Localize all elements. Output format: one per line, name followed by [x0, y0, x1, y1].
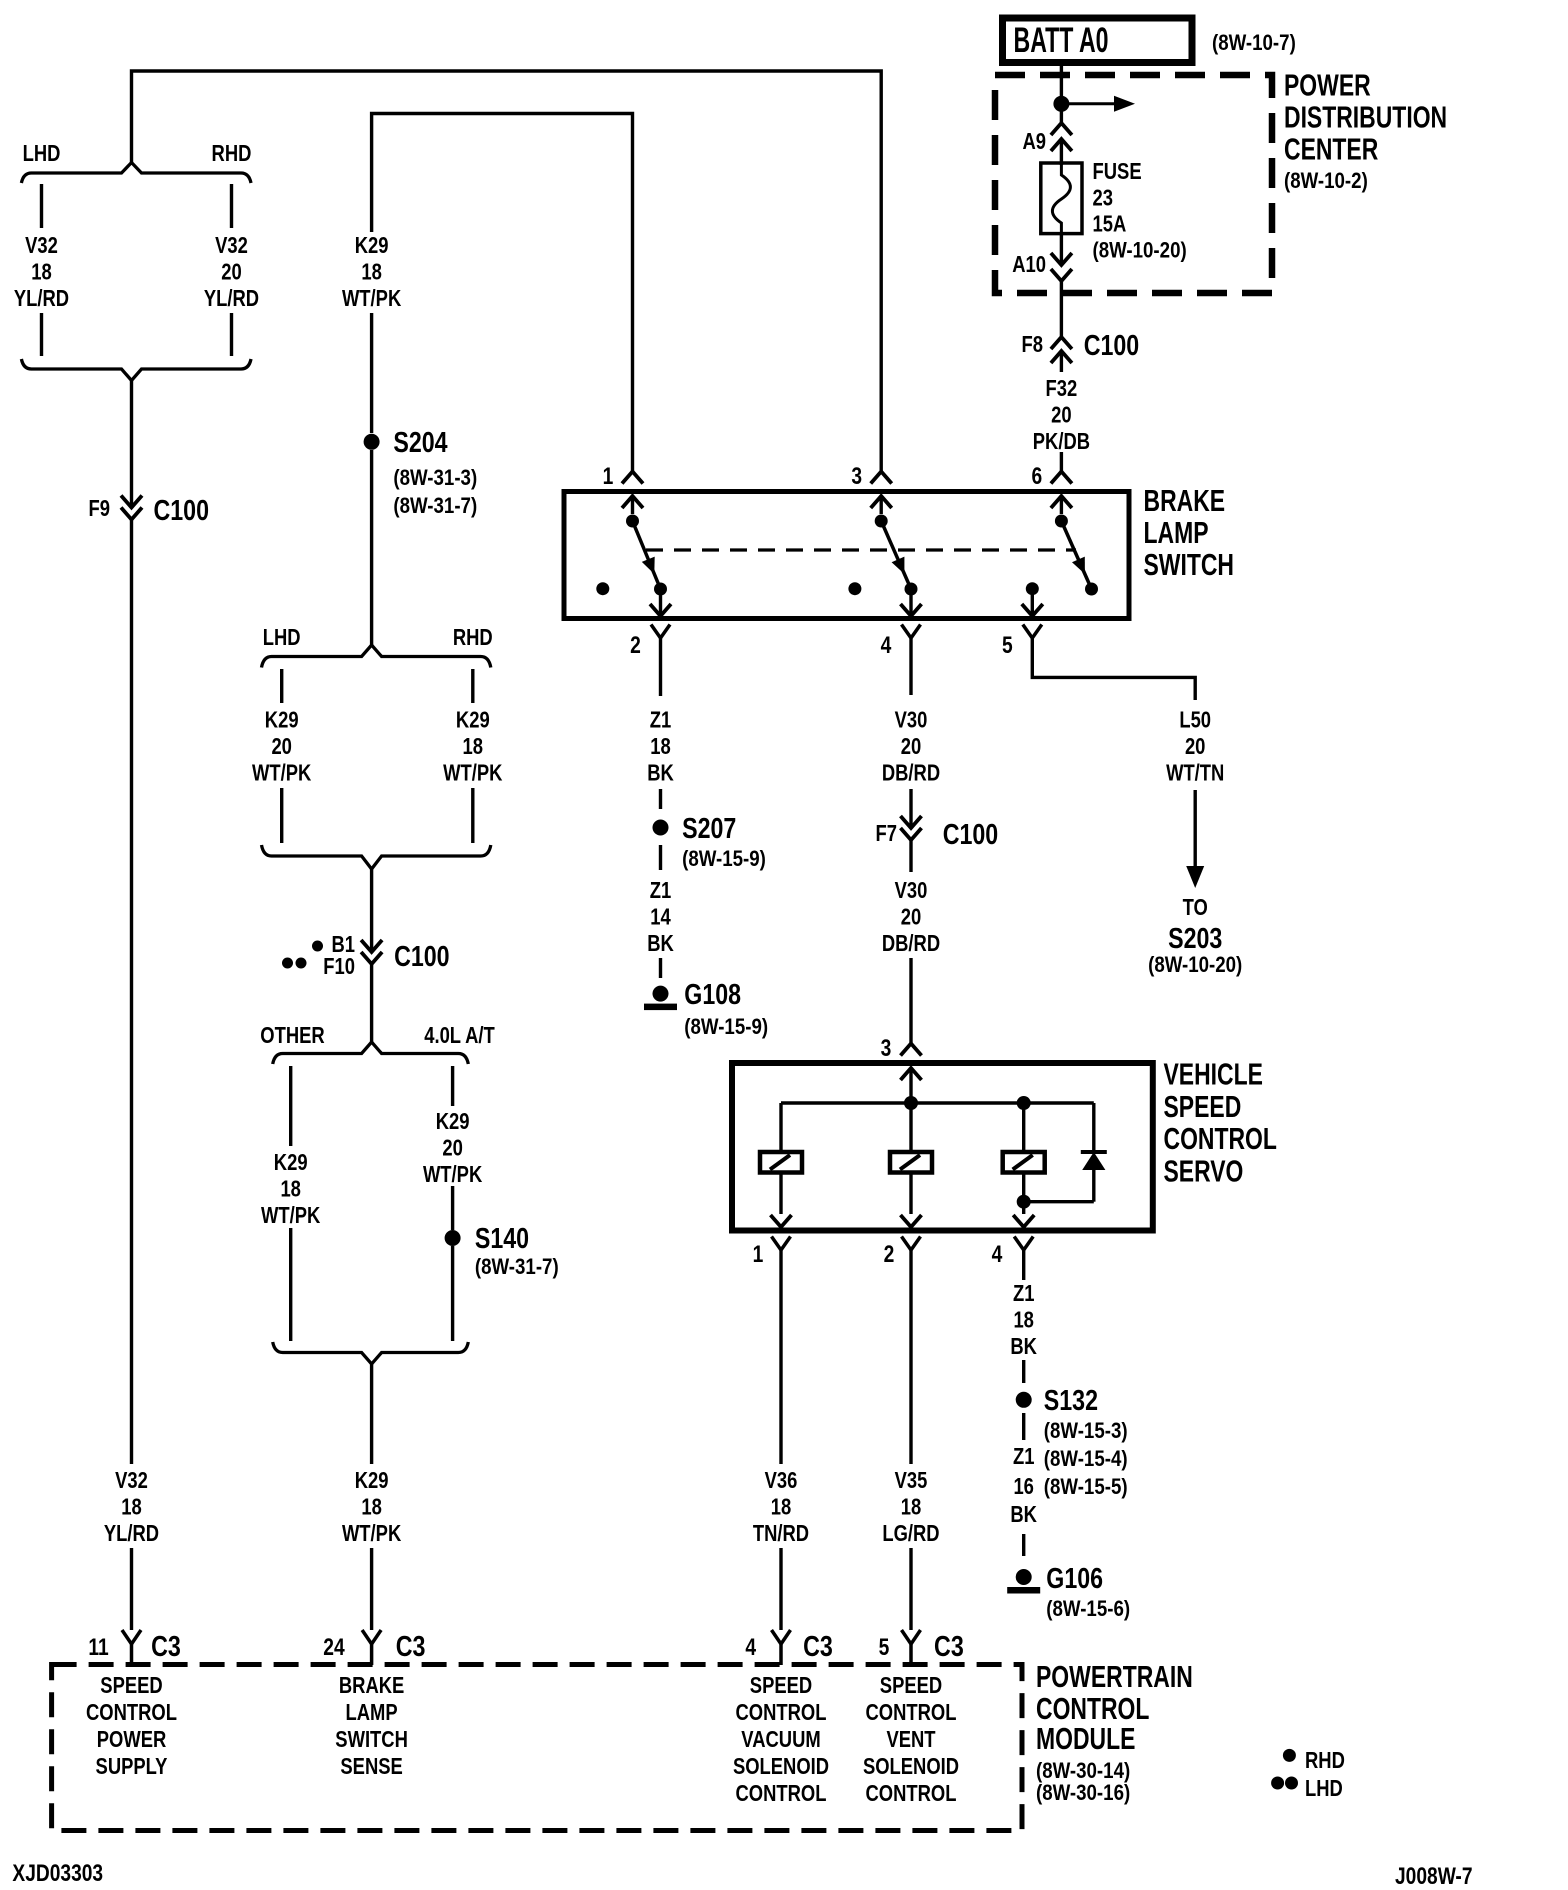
svg-text:V32: V32: [215, 232, 248, 258]
svg-text:SUPPLY: SUPPLY: [96, 1753, 168, 1779]
wire pin 5 jog to L50 column: [1032, 638, 1195, 700]
svg-text:BATT A0: BATT A0: [1014, 21, 1109, 60]
wire K29 RHD branch lower: [471, 788, 474, 843]
dashed mechanical linkage line: [646, 548, 1076, 551]
svg-text:DISTRIBUTION: DISTRIBUTION: [1284, 99, 1447, 134]
wire RHD branch upper segment: [230, 184, 233, 228]
wire A9 to fuse: [1060, 139, 1063, 165]
svg-text:F9: F9: [89, 495, 111, 521]
wire segment: [659, 789, 662, 809]
pin 5 exit connector (bottom of brake lamp switch): [1031, 589, 1034, 614]
svg-text:4: 4: [745, 1634, 756, 1661]
svg-text:SPEED: SPEED: [100, 1672, 162, 1698]
wire BATT A0 into PDC: [1060, 66, 1063, 122]
svg-text:YL/RD: YL/RD: [14, 285, 69, 311]
pin 3 entry connector (top of brake lamp switch): [871, 472, 892, 484]
svg-text:LAMP: LAMP: [1144, 515, 1209, 550]
svg-text:1: 1: [603, 463, 614, 490]
svg-text:6: 6: [1032, 463, 1043, 490]
svg-text:LHD: LHD: [23, 140, 61, 166]
wire segment: [1022, 1413, 1025, 1440]
svg-text:18: 18: [463, 733, 484, 759]
svg-text:1: 1: [753, 1241, 764, 1268]
svg-text:20: 20: [1185, 733, 1206, 759]
wire K29 down to PCM pin 24: [370, 1364, 373, 1464]
svg-text:C100: C100: [1084, 330, 1140, 362]
svg-text:20: 20: [901, 733, 922, 759]
svg-text:C3: C3: [396, 1631, 426, 1663]
splice S132: [1016, 1392, 1032, 1408]
svg-text:16: 16: [1013, 1473, 1034, 1499]
svg-text:VENT: VENT: [886, 1726, 935, 1752]
svg-text:CONTROL: CONTROL: [866, 1780, 957, 1806]
power distribution center dashed box: [995, 75, 1272, 293]
svg-text:K29: K29: [274, 1149, 308, 1175]
wire servo pin 2 down: [909, 1250, 912, 1464]
pin 11 connector fork at PCM: [122, 1630, 132, 1644]
svg-text:LHD: LHD: [1305, 1775, 1343, 1801]
wire K29 LHD branch lower: [280, 788, 283, 843]
wire arrow to S203: [1193, 790, 1196, 868]
svg-text:(8W-10-2): (8W-10-2): [1284, 168, 1368, 193]
svg-text:2: 2: [630, 632, 641, 659]
svg-text:18: 18: [1013, 1307, 1034, 1333]
ground G108: [653, 986, 669, 1002]
svg-text:J008W-7: J008W-7: [1395, 1863, 1473, 1890]
svg-text:C100: C100: [943, 819, 999, 851]
wire pin 2 stem: [659, 638, 662, 696]
svg-text:LG/RD: LG/RD: [882, 1520, 939, 1546]
svg-text:18: 18: [121, 1494, 142, 1520]
svg-text:G108: G108: [684, 979, 741, 1011]
solenoid coil (vent): [1022, 1103, 1025, 1152]
svg-text:LHD: LHD: [263, 624, 301, 650]
wire segment: [909, 840, 912, 872]
switch contact and blade (pin 6): [1055, 515, 1068, 528]
wire coil outputs to servo pins: [779, 1173, 782, 1215]
svg-text:4.0L A/T: 4.0L A/T: [424, 1022, 495, 1048]
svg-text:MODULE: MODULE: [1036, 1721, 1135, 1756]
svg-text:RHD: RHD: [212, 140, 252, 166]
wire S204 down to LHD/RHD split: [370, 450, 373, 645]
svg-text:18: 18: [771, 1494, 792, 1520]
svg-text:F10: F10: [323, 953, 355, 979]
svg-text:SWITCH: SWITCH: [335, 1726, 408, 1752]
svg-text:F32: F32: [1046, 375, 1078, 401]
svg-text:V35: V35: [895, 1467, 928, 1493]
wire fuse to A10: [1060, 234, 1063, 264]
svg-text:C3: C3: [803, 1631, 833, 1663]
wire K29 from C100 down to OTHER/4.0L split: [370, 964, 373, 1043]
svg-text:4: 4: [992, 1241, 1003, 1268]
svg-text:S204: S204: [393, 427, 447, 459]
connector C100 F9 (in-line): [121, 496, 142, 508]
wire internal bus of servo: [909, 1097, 912, 1103]
splice S140: [445, 1230, 461, 1246]
pin 5 connector fork at PCM: [902, 1630, 912, 1644]
pin 4 connector fork at PCM: [772, 1630, 782, 1644]
svg-text:23: 23: [1093, 185, 1114, 211]
svg-text:BK: BK: [1010, 1501, 1037, 1527]
splice S207: [653, 820, 669, 836]
legend LHD marker: [1271, 1777, 1284, 1790]
svg-text:BRAKE: BRAKE: [1144, 483, 1226, 518]
svg-text:VACUUM: VACUUM: [741, 1726, 820, 1752]
svg-text:XJD03303: XJD03303: [12, 1860, 103, 1887]
svg-text:C3: C3: [934, 1631, 964, 1663]
svg-text:K29: K29: [456, 707, 490, 733]
svg-text:20: 20: [442, 1135, 463, 1161]
svg-text:(8W-15-9): (8W-15-9): [684, 1014, 768, 1039]
svg-text:F7: F7: [876, 820, 898, 846]
svg-text:G106: G106: [1046, 1563, 1103, 1595]
brace split OTHER/4.0L A/T: [273, 1042, 469, 1064]
svg-text:4: 4: [881, 632, 892, 659]
svg-text:S140: S140: [475, 1223, 529, 1255]
wire diode to vent solenoid output: [1024, 1200, 1094, 1203]
svg-text:CONTROL: CONTROL: [736, 1780, 827, 1806]
svg-text:14: 14: [650, 904, 671, 930]
svg-text:A9: A9: [1023, 128, 1047, 154]
svg-text:A10: A10: [1012, 251, 1046, 277]
wire 4.0L branch lower: [451, 1246, 454, 1341]
svg-text:C100: C100: [394, 941, 450, 973]
svg-text:CONTROL: CONTROL: [1164, 1121, 1277, 1156]
svg-text:WT/PK: WT/PK: [443, 760, 503, 786]
svg-text:(8W-31-7): (8W-31-7): [475, 1254, 559, 1279]
switch contact and blade (pins 1-2): [626, 515, 639, 528]
node junction at vent solenoid feed: [1017, 1096, 1031, 1110]
wire LHD branch lower segment: [40, 313, 43, 356]
wire OTHER branch upper: [289, 1066, 292, 1146]
svg-text:2: 2: [884, 1241, 895, 1268]
svg-text:S207: S207: [682, 813, 736, 845]
svg-text:V32: V32: [115, 1467, 148, 1493]
pin 6 entry connector (top of brake lamp switch): [1051, 472, 1072, 484]
node junction at servo pin 3: [904, 1096, 918, 1110]
wire K29 LHD branch upper: [280, 669, 283, 703]
svg-text:V30: V30: [895, 707, 928, 733]
svg-text:POWERTRAIN: POWERTRAIN: [1036, 1659, 1193, 1694]
wire RHD branch lower segment: [230, 313, 233, 356]
svg-text:Z1: Z1: [650, 707, 672, 733]
brace split LHD/RHD (K29 top): [262, 645, 491, 668]
wire 4.0L branch to splice S140: [451, 1186, 454, 1230]
legend RHD marker: [1283, 1749, 1296, 1762]
connector C100 B1/F10 (in-line): [361, 940, 382, 952]
svg-text:CONTROL: CONTROL: [866, 1699, 957, 1725]
svg-text:V30: V30: [895, 877, 928, 903]
svg-text:(8W-31-3): (8W-31-3): [393, 465, 477, 490]
wire top bus from LHD/RHD split to brake lamp switch pin 3: [132, 71, 882, 471]
svg-text:(8W-30-16): (8W-30-16): [1036, 1780, 1130, 1805]
svg-text:CONTROL: CONTROL: [736, 1699, 827, 1725]
node junction on vent solenoid output: [1017, 1195, 1031, 1209]
svg-text:C100: C100: [154, 495, 210, 527]
svg-text:YL/RD: YL/RD: [104, 1520, 159, 1546]
diode (clamp) in servo: [1092, 1103, 1095, 1152]
switch contact and blade (pins 3-4): [875, 515, 888, 528]
svg-text:CENTER: CENTER: [1284, 131, 1378, 166]
svg-text:SPEED: SPEED: [750, 1672, 812, 1698]
svg-text:15A: 15A: [1093, 211, 1127, 237]
brake lamp switch box: [564, 492, 1129, 619]
pin 2 exit connector (bottom of brake lamp switch): [659, 589, 662, 614]
svg-text:K29: K29: [265, 707, 299, 733]
svg-text:24: 24: [323, 1634, 345, 1661]
pin 1 exit connector (bottom of servo): [771, 1215, 792, 1227]
pin 2 exit connector (bottom of servo): [901, 1215, 922, 1227]
svg-text:K29: K29: [436, 1108, 470, 1134]
svg-text:(8W-31-7): (8W-31-7): [393, 493, 477, 518]
brace merge LHD/RHD (K29 bottom): [262, 845, 491, 869]
svg-text:RHD: RHD: [453, 624, 493, 650]
wire servo pin 1 down: [779, 1250, 782, 1280]
svg-text:WT/TN: WT/TN: [1166, 760, 1224, 786]
svg-text:SWITCH: SWITCH: [1144, 547, 1235, 582]
svg-text:SPEED: SPEED: [1164, 1089, 1242, 1124]
wire from K29 splice column to brake lamp switch pin 1: [372, 114, 633, 472]
svg-text:20: 20: [901, 904, 922, 930]
wire pin 4 stem: [909, 638, 912, 695]
node junction at PDC feed: [1053, 96, 1069, 112]
svg-text:WT/PK: WT/PK: [261, 1202, 321, 1228]
svg-text:(8W-10-20): (8W-10-20): [1148, 952, 1242, 977]
vehicle speed control servo box: [732, 1063, 1153, 1231]
svg-text:WT/PK: WT/PK: [252, 760, 312, 786]
node RHD marker dot at B1: [312, 941, 323, 952]
wire LHD branch upper segment: [40, 184, 43, 228]
wire arrow tap to other circuits: [1061, 102, 1117, 105]
svg-text:3: 3: [881, 1035, 892, 1062]
connector A10 (double chevron): [1051, 269, 1072, 281]
svg-text:SERVO: SERVO: [1164, 1154, 1244, 1189]
stationary contact near pin 2: [596, 582, 609, 595]
ground G106: [1016, 1569, 1032, 1585]
wire segment: [909, 789, 912, 827]
svg-text:Z1: Z1: [650, 877, 672, 903]
pin 1 entry connector (top of brake lamp switch): [622, 472, 643, 484]
svg-text:K29: K29: [355, 232, 389, 258]
fuse 23 15A (element): [1041, 163, 1082, 234]
svg-text:VEHICLE: VEHICLE: [1164, 1057, 1263, 1092]
svg-text:Z1: Z1: [1013, 1443, 1035, 1469]
wire segment: [1022, 1360, 1025, 1383]
svg-text:PK/DB: PK/DB: [1033, 428, 1090, 454]
svg-text:18: 18: [901, 1494, 922, 1520]
svg-text:20: 20: [221, 259, 242, 285]
svg-text:POWER: POWER: [97, 1726, 167, 1752]
wire segment: [659, 845, 662, 870]
wire OTHER branch lower: [289, 1228, 292, 1341]
wire 4.0L A/T branch upper: [451, 1066, 454, 1106]
solenoid coil (middle): [909, 1103, 912, 1152]
svg-text:18: 18: [650, 733, 671, 759]
pin 24 connector fork at PCM: [362, 1630, 372, 1644]
svg-text:BK: BK: [1010, 1333, 1037, 1359]
connector A9 (double chevron): [1051, 123, 1072, 135]
wire K29 RHD branch upper: [471, 669, 474, 703]
svg-text:S203: S203: [1168, 923, 1222, 955]
svg-text:18: 18: [31, 259, 52, 285]
svg-text:5: 5: [879, 1634, 890, 1661]
svg-text:(8W-15-3): (8W-15-3): [1044, 1418, 1128, 1443]
svg-text:DB/RD: DB/RD: [882, 760, 940, 786]
svg-text:(8W-15-5): (8W-15-5): [1044, 1474, 1128, 1499]
svg-text:20: 20: [1051, 402, 1072, 428]
svg-text:OTHER: OTHER: [260, 1022, 325, 1048]
svg-text:SPEED: SPEED: [880, 1672, 942, 1698]
wire down to servo pin 3: [909, 958, 912, 1043]
svg-text:Z1: Z1: [1013, 1280, 1035, 1306]
svg-text:YL/RD: YL/RD: [204, 285, 259, 311]
pin 3 entry connector (top of servo): [901, 1044, 922, 1056]
wire V32 from C100 down to PCM pin 11: [130, 520, 133, 1465]
battery feed BATT A0 box: [1003, 18, 1193, 63]
svg-text:WT/PK: WT/PK: [342, 285, 402, 311]
node LHD marker dots at F10: [282, 958, 293, 969]
wire K29 down to connector C100 B1/F10: [370, 869, 373, 951]
wire A10 out of PDC to C100 F8: [1060, 281, 1063, 336]
wire segment: [1022, 1534, 1025, 1556]
svg-text:TO: TO: [1183, 894, 1208, 920]
svg-text:L50: L50: [1179, 707, 1211, 733]
svg-text:SOLENOID: SOLENOID: [733, 1753, 829, 1779]
brace merge OTHER/4.0L: [273, 1342, 469, 1364]
svg-text:18: 18: [361, 259, 382, 285]
svg-text:RHD: RHD: [1305, 1747, 1345, 1773]
svg-text:(8W-15-4): (8W-15-4): [1044, 1446, 1128, 1471]
svg-text:K29: K29: [355, 1467, 389, 1493]
svg-text:11: 11: [88, 1634, 108, 1661]
svg-text:WT/PK: WT/PK: [423, 1161, 483, 1187]
svg-text:20: 20: [271, 733, 292, 759]
wire segment: [659, 958, 662, 978]
svg-text:(8W-15-9): (8W-15-9): [682, 846, 766, 871]
wire servo pin 4 stem: [1022, 1250, 1025, 1280]
svg-text:V32: V32: [25, 232, 58, 258]
svg-text:TN/RD: TN/RD: [753, 1520, 809, 1546]
svg-text:18: 18: [280, 1176, 301, 1202]
wire F8 down to pin 6: [1060, 351, 1063, 372]
pin 4 exit connector (bottom of brake lamp switch): [909, 589, 912, 614]
svg-text:18: 18: [361, 1494, 382, 1520]
brace split LHD/RHD (top): [21, 163, 251, 184]
svg-text:POWER: POWER: [1284, 68, 1371, 103]
svg-text:V36: V36: [765, 1467, 798, 1493]
svg-text:CONTROL: CONTROL: [86, 1699, 177, 1725]
connector C100 F7 (in-line): [901, 816, 922, 828]
wire V32 down to connector C100 F9: [130, 381, 133, 507]
svg-text:(8W-10-20): (8W-10-20): [1093, 238, 1187, 263]
svg-text:DB/RD: DB/RD: [882, 930, 940, 956]
svg-text:5: 5: [1002, 632, 1013, 659]
wire K29 down to splice S204: [370, 313, 373, 433]
brace merge LHD/RHD (bottom): [21, 359, 251, 381]
svg-text:F8: F8: [1022, 331, 1044, 357]
connector C100 F8 (in-line): [1051, 337, 1072, 349]
svg-text:S132: S132: [1044, 1385, 1098, 1417]
svg-text:(8W-15-6): (8W-15-6): [1046, 1596, 1130, 1621]
svg-text:FUSE: FUSE: [1093, 158, 1142, 184]
solenoid coil (vacuum): [779, 1103, 782, 1152]
svg-text:SOLENOID: SOLENOID: [863, 1753, 959, 1779]
svg-text:BK: BK: [647, 760, 674, 786]
svg-text:BK: BK: [647, 930, 674, 956]
svg-text:BRAKE: BRAKE: [339, 1672, 404, 1698]
stationary contact feeding pin 5: [1026, 582, 1039, 595]
svg-text:LAMP: LAMP: [346, 1699, 398, 1725]
pin 4 exit connector (bottom of servo): [1013, 1215, 1034, 1227]
svg-text:SENSE: SENSE: [340, 1753, 402, 1779]
splice S204: [364, 434, 380, 450]
svg-text:3: 3: [851, 463, 862, 490]
svg-text:(8W-10-7): (8W-10-7): [1212, 30, 1296, 55]
stationary contact near pin 4: [848, 582, 861, 595]
powertrain control module dashed box: [52, 1665, 1022, 1831]
svg-text:C3: C3: [151, 1631, 181, 1663]
svg-text:WT/PK: WT/PK: [342, 1520, 402, 1546]
